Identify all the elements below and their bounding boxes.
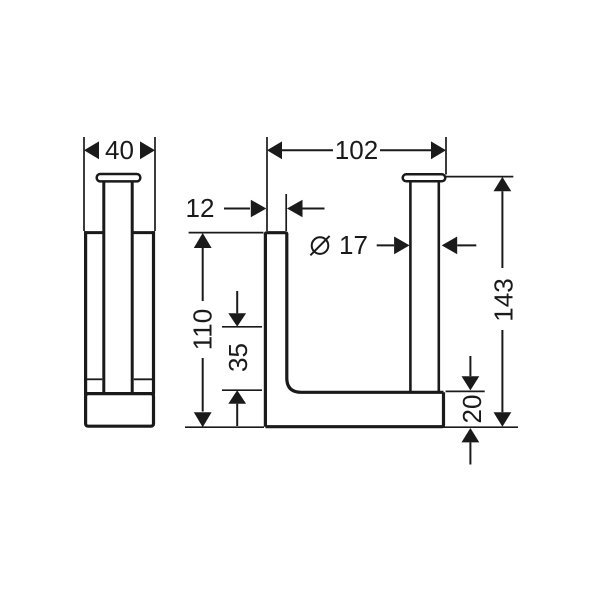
dim 40 left arrow — [84, 141, 99, 159]
dim diameter symbol circle — [312, 237, 329, 254]
side view inner depth line left — [87, 378, 102, 380]
dim 20 lower arrow pointing up — [462, 428, 480, 442]
front view right rod right edge — [437, 181, 440, 391]
dim 143 lower shaft — [501, 330, 503, 412]
side view base block — [86, 394, 154, 427]
dim 102 left arrow — [267, 141, 282, 159]
dim 102 left extension line — [266, 137, 268, 231]
dim 12 left arrow pointing right — [251, 200, 266, 218]
side view rod left edge — [102, 182, 105, 394]
dim 110 bottom extension line — [185, 426, 264, 428]
dim 20 upper extension line — [446, 390, 485, 392]
dim 102 left shaft — [282, 149, 333, 151]
dim 17 left shaft — [377, 244, 394, 246]
dim 143 bottom extension line — [444, 426, 519, 428]
side view bracket top left segment — [84, 231, 103, 234]
dim 102 right arrow — [431, 141, 446, 159]
dim 110 top arrow pointing up — [194, 233, 212, 248]
svg-text:17: 17 — [339, 230, 368, 260]
side view rod right edge — [131, 182, 134, 394]
dim 35 upper extension line — [222, 326, 262, 328]
dim 12 leader shaft — [224, 208, 250, 210]
svg-text:35: 35 — [223, 343, 253, 372]
dim 40 right extension line — [154, 137, 156, 231]
dim 35 lower arrow pointing up — [228, 390, 246, 404]
side view bracket right wall — [152, 231, 155, 393]
dim 40 left extension line — [83, 137, 85, 231]
svg-text:110: 110 — [188, 309, 218, 350]
svg-text:20: 20 — [457, 395, 487, 424]
side view cap — [97, 174, 141, 181]
dim 12 right arrow pointing left — [287, 200, 303, 218]
dim 110 upper shaft — [202, 248, 204, 301]
svg-text:102: 102 — [335, 135, 378, 165]
side view inner depth line right — [134, 378, 152, 380]
dim 110 lower shaft — [202, 358, 204, 412]
dim 20 upper shaft — [469, 356, 471, 376]
side view bracket top right segment — [133, 231, 155, 234]
dim 102 right shaft — [380, 149, 431, 151]
dim 35 lower extension line — [222, 389, 262, 391]
svg-text:40: 40 — [105, 135, 134, 165]
dim 17 right shaft — [457, 244, 476, 246]
dim 143 top arrow pointing up — [494, 177, 512, 191]
dim 102 right extension line — [445, 137, 447, 175]
dim diameter symbol slash — [310, 236, 329, 255]
dim 12 right shaft — [303, 208, 325, 210]
front view rod cap — [403, 174, 446, 181]
dim 12 second extension line — [285, 194, 287, 231]
dim 20 lower shaft — [469, 442, 471, 464]
dim 17 right arrow pointing left — [442, 237, 458, 255]
front view left bar left edge going down into base — [264, 234, 267, 427]
front view left bar top edge — [265, 233, 286, 235]
svg-text:12: 12 — [186, 193, 215, 223]
dim 143 upper shaft — [501, 191, 503, 268]
dim 40 right arrow — [140, 141, 155, 159]
dim 35 upper shaft — [236, 291, 238, 313]
front view base bottom edge — [265, 392, 443, 426]
side view base divider — [84, 392, 155, 395]
svg-text:143: 143 — [489, 278, 519, 321]
front view right rod left edge — [409, 181, 412, 391]
dim 17 left arrow pointing right — [394, 237, 410, 255]
dim 20 upper arrow pointing down — [462, 376, 480, 390]
dim 35 upper arrow pointing down — [228, 313, 246, 326]
dim 110 top extension line — [189, 232, 264, 234]
side view bracket left wall — [84, 231, 87, 393]
dim 143 bottom arrow pointing down — [494, 412, 512, 427]
dim 143 top extension line — [445, 176, 513, 178]
dim 35 lower shaft — [236, 404, 238, 426]
dim 110 bottom arrow pointing down — [194, 412, 212, 427]
front view left bar inner edge with corner radius and inner bottom of U — [287, 234, 444, 393]
